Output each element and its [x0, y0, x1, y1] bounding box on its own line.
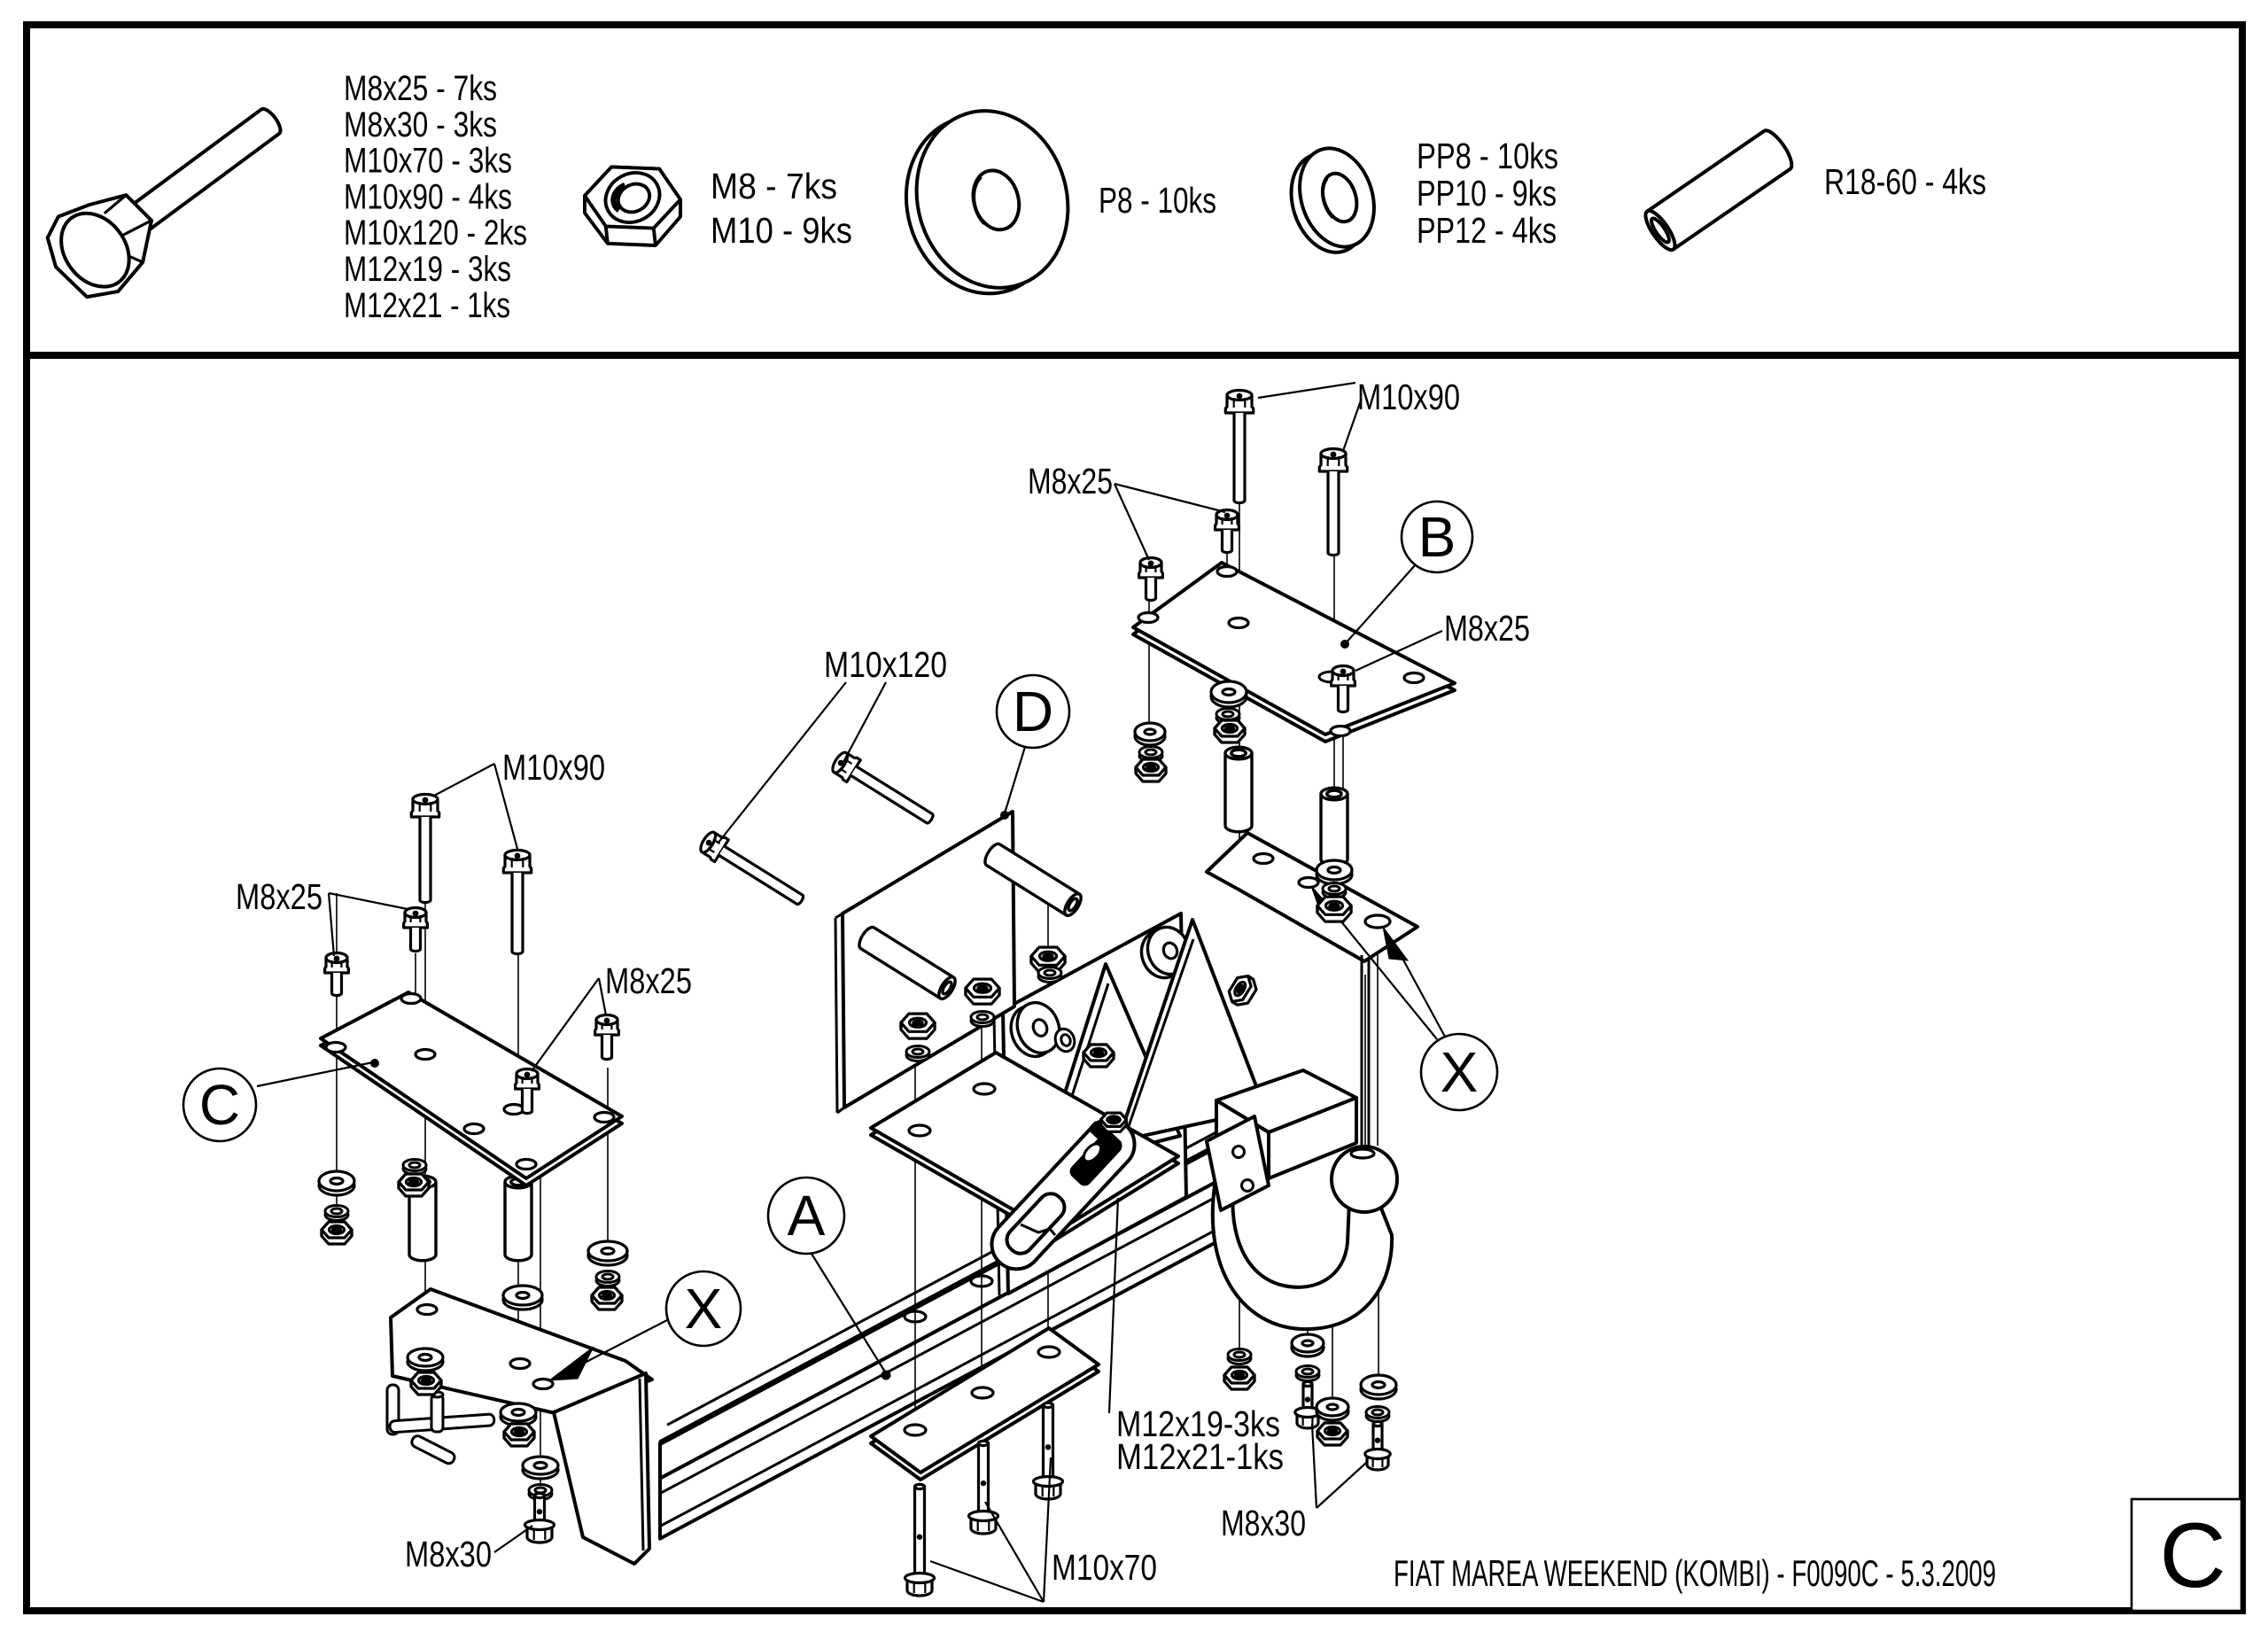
- leader M8x25: [599, 978, 606, 1015]
- nut M10: [901, 1014, 935, 1038]
- label circle X left: [666, 1271, 741, 1346]
- reference dot D: [1000, 811, 1009, 820]
- bolt M10x70: [979, 1441, 989, 1518]
- plate B hole: [1229, 618, 1248, 628]
- bolt M8x25: [1332, 671, 1355, 686]
- bolt M10x90: [1225, 395, 1253, 413]
- washer P8: [1361, 1380, 1396, 1399]
- leader M10x90: [1343, 400, 1361, 451]
- svg-text:M10x70: M10x70: [1052, 1547, 1157, 1588]
- washer P8: [1317, 1403, 1348, 1420]
- washer PP8: [529, 1488, 552, 1500]
- arrow to X hole: [1311, 886, 1340, 918]
- leader to X: [1332, 911, 1437, 1039]
- bolt M10x90: [411, 799, 439, 817]
- leader D: [1005, 747, 1025, 813]
- bracket hole (X reference): [1365, 915, 1390, 928]
- svg-text:X: X: [685, 1277, 723, 1341]
- svg-text:M10x120 - 2ks: M10x120 - 2ks: [344, 214, 527, 253]
- bottom clamp plate: [871, 1328, 1099, 1480]
- svg-text:M8x25: M8x25: [1028, 461, 1113, 501]
- bracket hole: [417, 1305, 437, 1315]
- crossbar beam A: [660, 1128, 1225, 1539]
- ball mount base plate: [871, 1053, 1178, 1240]
- svg-text:C: C: [199, 1073, 240, 1137]
- svg-text:M12x19 - 3ks: M12x19 - 3ks: [344, 250, 511, 289]
- nut M8: [1136, 759, 1166, 781]
- bolt M8x25: [595, 1020, 619, 1035]
- svg-text:M12x21-1ks: M12x21-1ks: [1116, 1436, 1284, 1477]
- nut M10: [1317, 897, 1351, 921]
- washer P12 on stud: [1135, 925, 1190, 983]
- leader M8x25: [1355, 631, 1442, 671]
- label circle B: [1402, 501, 1472, 572]
- washer under bolt: [1319, 672, 1346, 682]
- revision box: [2132, 1499, 2241, 1611]
- washer P8: [523, 1461, 558, 1479]
- leader M8x25: [532, 978, 599, 1071]
- weld tube on plate D: [982, 842, 1084, 919]
- svg-text:M8x25: M8x25: [1444, 608, 1530, 649]
- leader M10x90: [1258, 383, 1355, 398]
- svg-text:M8x25 - 7ks: M8x25 - 7ks: [344, 69, 497, 108]
- left end bracket (X): [391, 1289, 652, 1564]
- washer P8: [1211, 686, 1247, 707]
- plate B hole: [1217, 567, 1237, 577]
- nut M8: [1215, 720, 1245, 742]
- label circle A: [768, 1178, 844, 1254]
- svg-text:B: B: [1418, 505, 1456, 569]
- washer PP10: [971, 1015, 994, 1027]
- nut M8: [1224, 1367, 1254, 1389]
- washer PP10: [1038, 971, 1061, 983]
- washer PP8: [1366, 1411, 1389, 1422]
- bolt M10x120: [697, 828, 809, 912]
- svg-text:FIAT MAREA WEEKEND (KOMBI) - F: FIAT MAREA WEEKEND (KOMBI) - F0090C - 5.…: [1394, 1552, 1996, 1594]
- plate B hole: [1138, 613, 1158, 623]
- bolt M10x90: [503, 855, 531, 873]
- weld tube on plate D: [856, 925, 958, 1002]
- leader M8x25: [329, 893, 334, 956]
- bolt M10x70: [915, 1484, 925, 1580]
- plate hole: [1038, 1347, 1060, 1357]
- bolt M12x19 on template: [1081, 1113, 1127, 1165]
- leader M10x70: [930, 1561, 1044, 1602]
- bracket hole (X reference): [1299, 878, 1318, 888]
- plate C hole: [517, 1160, 536, 1170]
- nut M8: [504, 1424, 534, 1446]
- reference dot A: [882, 1371, 891, 1380]
- tow ball hook arm: [1213, 1159, 1392, 1329]
- reinforcing plate B: [1133, 563, 1455, 742]
- washer P8: [408, 1353, 443, 1371]
- washer PP12: [1052, 1026, 1078, 1054]
- nut M12: [1103, 1126, 1133, 1148]
- right end bracket (X): [1207, 833, 1417, 1146]
- leader to X: [1400, 953, 1445, 1037]
- svg-text:M8x30 - 3ks: M8x30 - 3ks: [344, 105, 497, 144]
- plate C hole: [504, 1105, 524, 1115]
- nut M8: [411, 1372, 441, 1395]
- washer PP10: [1323, 887, 1346, 898]
- plate B hole: [1404, 673, 1424, 683]
- plate C hole: [416, 1050, 435, 1060]
- bolt M8x25: [1216, 515, 1239, 530]
- svg-text:M10 - 9ks: M10 - 9ks: [711, 210, 852, 251]
- leader M10x120: [843, 682, 886, 762]
- washer P8: [1135, 727, 1165, 745]
- washer P8: [503, 1290, 542, 1310]
- plate C hole: [464, 1124, 484, 1134]
- bolt M8x30: [535, 1493, 545, 1527]
- spacer tube R18-60: [505, 1182, 532, 1261]
- nut M8: [322, 1222, 352, 1244]
- nut M10: [399, 1174, 429, 1196]
- assembly axis construction lines: [337, 501, 1379, 1520]
- leader A: [812, 1254, 886, 1373]
- arrow to X hole: [1383, 927, 1408, 960]
- washer PP icon (parts list): [1278, 138, 1387, 261]
- leader M10x70: [985, 1502, 1044, 1602]
- leader M12: [1109, 1198, 1118, 1413]
- nut M12: [1084, 1045, 1114, 1067]
- leader M8x30: [494, 1526, 532, 1552]
- svg-text:M10x90 - 4ks: M10x90 - 4ks: [344, 177, 512, 216]
- reference dot C: [370, 1059, 379, 1068]
- washer P10: [1317, 865, 1352, 884]
- parts list divider: [23, 352, 2246, 359]
- label circle X right: [1421, 1034, 1497, 1110]
- svg-text:M8x30: M8x30: [1221, 1503, 1306, 1543]
- leader M10x70: [1044, 1457, 1051, 1602]
- base plate hole: [974, 1084, 995, 1094]
- washer PP8: [325, 1209, 348, 1221]
- mounting plate D: [835, 812, 1014, 1113]
- bolt M8x25: [404, 913, 428, 928]
- bracket hole: [1254, 854, 1273, 864]
- washer P8: [501, 1408, 536, 1426]
- leader M10x90: [434, 764, 494, 796]
- bolt M8x25: [1139, 563, 1163, 578]
- leader M8x30: [1312, 1424, 1317, 1508]
- bolt M10x120: [829, 749, 938, 830]
- plate C hole: [401, 994, 421, 1004]
- bumper cutout template plate: [982, 1109, 1145, 1279]
- svg-text:M12x21 - 1ks: M12x21 - 1ks: [344, 286, 510, 325]
- svg-text:M8x25: M8x25: [605, 960, 692, 1001]
- svg-text:M10x120: M10x120: [824, 644, 947, 685]
- svg-text:A: A: [788, 1184, 826, 1247]
- plate B hole: [1331, 727, 1350, 736]
- bolt M8x25: [516, 1074, 540, 1089]
- label circle D: [997, 675, 1069, 748]
- svg-text:P8 - 10ks: P8 - 10ks: [1099, 180, 1216, 221]
- svg-text:R18-60 - 4ks: R18-60 - 4ks: [1824, 161, 1986, 202]
- bracket hole (X reference): [533, 1380, 553, 1389]
- svg-text:M8x25: M8x25: [236, 876, 322, 917]
- washer PP10: [403, 1163, 426, 1175]
- bolt M8x30: [1303, 1381, 1312, 1414]
- svg-text:M8 - 7ks: M8 - 7ks: [711, 166, 837, 206]
- plate hole: [972, 1387, 993, 1398]
- plate C hole: [594, 1113, 614, 1123]
- plate C hole: [326, 1043, 346, 1053]
- arrow to X hole: [549, 1347, 594, 1380]
- svg-text:PP10 - 9ks: PP10 - 9ks: [1417, 173, 1557, 214]
- svg-text:PP8 - 10ks: PP8 - 10ks: [1417, 136, 1558, 176]
- washer P8: [319, 1176, 354, 1195]
- washer PP12: [1189, 955, 1215, 983]
- gusset plate 1: [1040, 964, 1180, 1171]
- washer PP8: [1228, 1353, 1251, 1364]
- label circle C: [183, 1069, 256, 1141]
- bolt M10x70: [1044, 1403, 1053, 1483]
- washer P8: [588, 1246, 627, 1265]
- leader X left: [581, 1320, 667, 1364]
- nut M12: [1077, 1044, 1112, 1081]
- leader B: [1345, 564, 1416, 644]
- gusset plate 2: [1118, 920, 1265, 1141]
- leader M10x120: [718, 682, 846, 843]
- plate hole: [905, 1425, 926, 1435]
- washer P8 icon (parts list): [885, 93, 1089, 312]
- base plate hole: [909, 1125, 930, 1136]
- nut M10: [1031, 947, 1065, 972]
- washer PP8: [1296, 1370, 1319, 1381]
- svg-text:X: X: [1441, 1040, 1479, 1104]
- plate B hole: [1332, 672, 1351, 681]
- washer PP8: [1139, 750, 1162, 762]
- washer P8: [1292, 1339, 1324, 1356]
- reference dot B: [1340, 640, 1349, 649]
- nut M8: [592, 1287, 622, 1310]
- hook mounting plate with bolts: [1207, 1116, 1269, 1210]
- receiver end of beam: [1216, 1070, 1356, 1178]
- hex bolt icon (parts list): [33, 78, 303, 313]
- bumper support rods on left bracket: [387, 1385, 494, 1465]
- spacer tube R18-60: [1321, 794, 1348, 866]
- svg-text:PP12 - 4ks: PP12 - 4ks: [1417, 210, 1557, 251]
- tow ball: [1332, 1146, 1397, 1212]
- nut M8: [1317, 1423, 1348, 1445]
- leader M8x30: [1317, 1463, 1366, 1508]
- svg-text:M10x90: M10x90: [1357, 377, 1460, 417]
- nut M12: [1225, 972, 1260, 1009]
- svg-text:D: D: [1013, 680, 1053, 743]
- bolt size list text: [344, 69, 527, 325]
- leader M8x25: [329, 893, 408, 909]
- leader M8x25: [1115, 484, 1225, 512]
- bolt M10x90: [1319, 454, 1347, 471]
- svg-text:M10x90: M10x90: [502, 747, 605, 788]
- svg-text:M10x70 - 3ks: M10x70 - 3ks: [344, 142, 512, 181]
- leader M10x90: [494, 764, 517, 849]
- washer PP8: [596, 1275, 619, 1286]
- beam A top-face holes: [905, 1205, 1125, 1322]
- leader M8x25: [1115, 484, 1149, 560]
- svg-text:C: C: [2159, 1504, 2225, 1607]
- bolt M8x30: [1373, 1421, 1382, 1456]
- washer P12 on stud: [1004, 1000, 1060, 1062]
- svg-text:M8x30: M8x30: [405, 1534, 492, 1574]
- spacer tube R18-60: [409, 1182, 436, 1261]
- nut M10: [966, 979, 999, 1004]
- spacer tube R18-60 icon (parts list): [1641, 127, 1797, 254]
- washer PP10: [906, 1050, 929, 1061]
- leader C: [257, 1062, 373, 1086]
- hex nut icon (parts list): [585, 163, 680, 245]
- reinforcing plate C: [321, 992, 622, 1185]
- spacer tube R18-60: [1225, 753, 1252, 832]
- bolt M8x25: [325, 958, 349, 973]
- bracket hole: [510, 1359, 530, 1369]
- vertical back plate: [1003, 913, 1186, 1294]
- washer PP8: [1216, 712, 1239, 724]
